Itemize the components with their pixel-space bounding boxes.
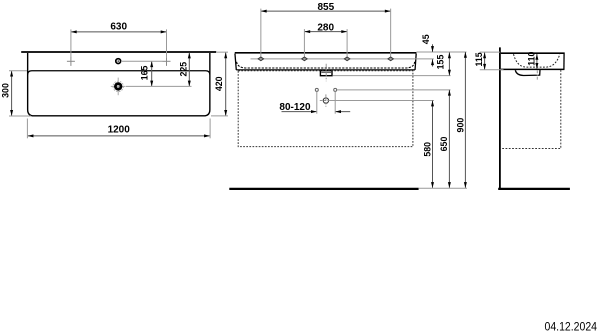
svg-text:45: 45 [421,34,431,44]
basin profile right edge [563,53,565,70]
dim 225 [188,53,190,87]
svg-text:04.12.2024: 04.12.2024 [545,320,598,333]
svg-text:1200: 1200 [108,125,131,136]
dim 855 [261,10,391,12]
inner basin edge [28,71,210,75]
floor line [229,188,418,190]
svg-text:225: 225 [178,62,188,77]
hidden bottom curve [237,62,415,68]
dim 110 [536,54,538,69]
svg-text:165: 165 [139,65,149,80]
dim 45 [432,44,434,52]
basin top edge [235,52,417,54]
dim 115 [484,52,486,69]
svg-text:900: 900 [456,118,466,133]
dim 165 [151,61,153,86]
mounting marker 4 [388,57,394,61]
ext line drain rect bottom (155) [333,75,451,77]
floor extension [419,187,467,189]
tap position cross right [163,57,171,66]
drain trap profile [515,70,540,76]
basin profile top [501,52,565,54]
dim 1200 [28,135,210,137]
dim 300 [11,71,13,116]
basin profile bottom [501,68,565,70]
dim 280 [304,31,347,33]
basin right edge [415,54,416,70]
svg-text:855: 855 [317,2,334,13]
floor line side [498,188,570,190]
mounting marker 2 [302,57,308,61]
svg-text:110: 110 [526,52,536,66]
mounting marker 1 [258,57,264,61]
drain outlet rect [320,71,332,76]
faucet hole [116,59,121,64]
dim 155 [448,52,450,75]
svg-text:580: 580 [423,142,433,157]
hidden box side [501,70,561,149]
svg-text:630: 630 [110,22,127,33]
washbasin rim (top plate) [21,51,216,53]
svg-text:650: 650 [439,137,449,152]
fixing hole right [334,88,337,91]
fixing hole left [315,88,318,91]
drain centerline [325,64,327,82]
basin bottom edge [236,69,415,71]
dim 650 [448,90,450,188]
mounting marker 3 [344,57,350,61]
dim 630 [71,31,167,33]
basin body outline [28,53,210,116]
drain [113,81,123,91]
dim 900 [464,52,466,188]
wall line [499,47,501,190]
marker centerline [251,58,434,60]
ext line top (45/900) [417,51,467,53]
svg-text:420: 420 [214,76,224,91]
basin left edge [235,54,236,70]
svg-text:155: 155 [436,55,446,70]
siphon circle [323,98,328,103]
ext line from right fixing hole (650) [337,89,451,91]
dim 420 [225,52,227,115]
dim 580 [432,101,434,188]
svg-text:115: 115 [474,52,484,66]
ext line from siphon (580) [329,100,434,102]
tap position cross left [67,57,75,66]
svg-text:300: 300 [0,83,10,98]
svg-text:280: 280 [317,22,334,33]
trap centerline [536,70,538,79]
drain centerlines [111,78,126,96]
inner bowl hidden curve [514,54,560,67]
hidden mounting box [238,71,413,147]
